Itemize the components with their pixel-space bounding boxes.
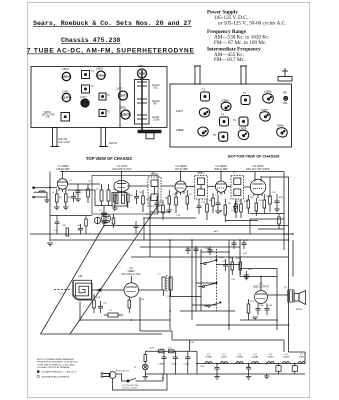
- mounting bracket right: [278, 77, 292, 82]
- svg-text:C34: C34: [200, 366, 205, 368]
- surge resistor R20: [159, 350, 165, 353]
- AC plug body: [109, 372, 116, 379]
- filament V-4: [252, 362, 259, 364]
- svg-text:VOLUME CONTROL AT MINIMUM.: VOLUME CONTROL AT MINIMUM.: [37, 366, 70, 369]
- wire T5 to V5: [244, 186, 251, 188]
- output stage: [240, 276, 277, 278]
- IF can T3 top view: [82, 71, 90, 79]
- chassis leg right: [101, 128, 106, 147]
- IF can T2 top view: [99, 93, 106, 100]
- svg-text:R11: R11: [250, 197, 255, 199]
- svg-text:T2: T2: [233, 119, 237, 122]
- cap drop x78: [77, 184, 79, 191]
- svg-text:C6: C6: [77, 225, 81, 227]
- svg-text:12BA6: 12BA6: [236, 356, 243, 359]
- components under V2: [114, 194, 117, 202]
- ground under V3: [167, 209, 173, 211]
- svg-text:R15: R15: [248, 269, 253, 271]
- cap x157 drop: [156, 196, 158, 203]
- vertical wire x150: [149, 196, 151, 240]
- svg-text:12AT7: 12AT7: [176, 110, 184, 113]
- svg-text:L1: L1: [52, 192, 55, 194]
- svg-text:C12: C12: [201, 202, 206, 204]
- svg-text:T8: T8: [284, 287, 287, 289]
- ground under filament bus: [264, 375, 270, 377]
- B+ rail 1: [283, 172, 285, 251]
- loop panel diagonal left: [41, 226, 105, 335]
- resistor x236 drop: [235, 199, 237, 204]
- svg-text:50B5: 50B5: [138, 66, 144, 68]
- capacitor C27: [98, 306, 103, 308]
- svg-text:FROM POINTS INDICATED TO B- WI: FROM POINTS INDICATED TO B- WITH A: [37, 361, 77, 364]
- svg-text:R4: R4: [130, 195, 134, 197]
- svg-text:SPKR: SPKR: [296, 309, 302, 311]
- filament labels: [205, 354, 305, 359]
- tube V-7 50B5 top view: [138, 69, 147, 78]
- switch contact S1-B: [202, 285, 204, 287]
- bus step y331: [140, 330, 172, 332]
- wire T3 to V3: [161, 185, 175, 187]
- main bus y234: [30, 233, 293, 235]
- svg-text:R7: R7: [189, 194, 193, 196]
- drop x86 resistor: [85, 216, 87, 220]
- tube V-3 12BA6: [175, 181, 186, 192]
- ground output: [252, 316, 258, 318]
- svg-text:Chassis 475.238: Chassis 475.238: [61, 37, 120, 44]
- component value labels: [52, 173, 302, 369]
- AM loop outer boundary: [73, 280, 91, 300]
- svg-text:250: 250: [283, 102, 288, 105]
- svg-text:DET. AVC 1ST AUDIO: DET. AVC 1ST AUDIO: [246, 168, 270, 171]
- cap x218 drop: [217, 196, 219, 203]
- IF can T4 top view: [82, 85, 90, 93]
- svg-text:12AT7: 12AT7: [80, 96, 87, 99]
- link y215 left: [50, 215, 92, 217]
- filament V-5: [267, 362, 274, 364]
- osc coil T7: [162, 277, 165, 290]
- tuner mounting plate: [138, 130, 161, 133]
- horizontal y229 right: [258, 228, 284, 230]
- svg-text:S1-B: S1-B: [219, 257, 224, 259]
- svg-text:T4: T4: [91, 86, 94, 88]
- wire T4 to V4: [207, 186, 215, 188]
- FM osc coil L5: [102, 214, 111, 223]
- cap x277 drop: [276, 194, 278, 201]
- wire V7 to T8: [268, 294, 288, 296]
- capacitors mid: [223, 264, 228, 266]
- svg-text:12BE6: 12BE6: [176, 129, 184, 132]
- band switch S1: [198, 247, 249, 311]
- ground R2: [63, 206, 69, 208]
- resistor R17: [247, 304, 250, 313]
- svg-text:COND: COND: [153, 120, 160, 122]
- svg-text:12AT7: 12AT7: [221, 356, 228, 359]
- svg-text:TOP VIEW OF CHASSIS: TOP VIEW OF CHASSIS: [86, 156, 132, 161]
- filament right end riser: [304, 352, 306, 364]
- ground left bottom: [47, 242, 53, 244]
- resistor x207 drop: [206, 199, 208, 204]
- tube V-1 12AT7 top view: [119, 91, 128, 100]
- plug prongs: [103, 373, 109, 375]
- svg-text:12BA6: 12BA6: [62, 68, 70, 71]
- svg-text:12AT7: 12AT7: [116, 88, 123, 91]
- switch contact S1-A: [204, 262, 206, 264]
- socket T2 bottom view: [239, 117, 248, 126]
- IF transformer T3 dashed can: [148, 177, 161, 206]
- svg-text:FM: FM: [283, 92, 287, 95]
- svg-text:VOL CONT: VOL CONT: [58, 141, 71, 144]
- vertical x229 long: [228, 240, 230, 330]
- svg-text:R16: R16: [96, 297, 101, 299]
- svg-text:T1: T1: [96, 189, 99, 191]
- cap cluster x244 y242: [242, 242, 247, 244]
- bus y257: [131, 256, 289, 258]
- svg-text:AM-FM: AM-FM: [152, 84, 160, 87]
- svg-text:C27: C27: [103, 303, 108, 305]
- filament V-1: [205, 362, 212, 364]
- volume control R9: [224, 205, 227, 215]
- AM loop L7 spiral: [73, 281, 92, 299]
- horizontal y305: [192, 304, 216, 306]
- filament ground bus: [145, 373, 305, 375]
- ground x277: [274, 208, 280, 210]
- svg-text:S1-A: S1-A: [205, 247, 210, 250]
- loop panel diagonal right: [70, 205, 158, 334]
- wire V6 to osc coil: [139, 289, 162, 291]
- socket 12AT7 bottom view: [199, 108, 209, 117]
- resistor x163 drop: [162, 200, 164, 205]
- power cord / plug: [101, 372, 167, 390]
- cap x136 y225: [134, 225, 139, 227]
- cord bottom conductor: [113, 378, 168, 390]
- svg-text:C3: C3: [88, 181, 92, 183]
- label V-6 AM conv: [121, 267, 141, 276]
- horizontal y296: [170, 296, 201, 298]
- filament V-2: [221, 362, 228, 364]
- svg-text:AM-FM: AM-FM: [109, 142, 117, 145]
- svg-text:R5: R5: [146, 199, 150, 201]
- svg-text:12AT7: 12AT7: [119, 94, 127, 98]
- svg-text:FM—10.7 Mc.: FM—10.7 Mc.: [214, 57, 245, 63]
- bus y247: [140, 246, 240, 248]
- svg-text:ON VOL CONT.: ON VOL CONT.: [122, 387, 138, 389]
- switch S2 contact: [127, 380, 129, 382]
- wire bottom output: [248, 317, 250, 320]
- wire V2 to T3: [127, 185, 148, 187]
- riser to B+ bus: [189, 340, 191, 351]
- filter cap C36C: [187, 351, 189, 357]
- ratio detector T-6 top view: [61, 113, 70, 122]
- wire V1 plate: [62, 172, 64, 179]
- svg-text:C23: C23: [231, 279, 236, 281]
- tube V3 pins: [176, 192, 178, 195]
- svg-text:12AT7: 12AT7: [261, 109, 269, 112]
- capacitor C2: [71, 196, 76, 198]
- switch contact S1-C: [208, 305, 210, 307]
- svg-text:12BE6: 12BE6: [122, 113, 130, 117]
- svg-text:C17: C17: [272, 192, 277, 194]
- ground x78: [75, 198, 81, 200]
- vertical x196: [195, 247, 197, 311]
- horizontal link y205: [95, 205, 112, 207]
- svg-text:R18: R18: [140, 299, 145, 301]
- cap cluster x234 y242: [232, 242, 237, 244]
- svg-text:VOLTAGE READINGS — LINE 117 V.: VOLTAGE READINGS — LINE 117 V.: [42, 371, 77, 374]
- extra mid-band wiring: [50, 214, 284, 241]
- svg-text:C36C: C36C: [184, 364, 190, 366]
- svg-text:C1: C1: [69, 180, 73, 182]
- ground x246 y275: [244, 276, 250, 278]
- svg-text:R20: R20: [150, 348, 155, 350]
- svg-text:R13: R13: [279, 197, 284, 199]
- ground x218: [215, 210, 221, 212]
- svg-text:T5: T5: [233, 173, 236, 175]
- svg-text:L10: L10: [168, 348, 172, 350]
- ground filament 2: [246, 376, 252, 378]
- svg-text:C21: C21: [229, 258, 234, 260]
- resistor drop x88: [87, 184, 89, 189]
- filament V-3: [236, 362, 243, 364]
- horizontal link y220: [225, 220, 258, 222]
- horizontal y252: [201, 251, 229, 253]
- svg-text:AVC: AVC: [214, 230, 219, 233]
- resistor x241 drop: [240, 199, 242, 204]
- resistor x279: [278, 214, 280, 218]
- svg-text:T1: T1: [243, 92, 247, 95]
- svg-text:T3: T3: [202, 89, 206, 92]
- drop x57: [56, 216, 58, 223]
- svg-text:R1: R1: [59, 197, 63, 199]
- svg-text:T-6: T-6: [46, 117, 50, 119]
- filter choke L10: [169, 350, 175, 353]
- filament bypass cap 1: [215, 367, 220, 369]
- filter cap C36A: [163, 351, 165, 357]
- vertical x140: [139, 297, 141, 331]
- antenna ground: [44, 199, 50, 201]
- svg-text:FM CONV & OSC: FM CONV & OSC: [112, 168, 131, 171]
- B+ line from rectifier: [145, 350, 197, 352]
- tube V-3 12BA6 top view: [62, 72, 70, 80]
- horizontal link y212: [150, 211, 170, 213]
- tuning gang condenser: [135, 80, 150, 125]
- bottom chassis outline: [170, 84, 292, 147]
- resistor R2: [65, 194, 68, 202]
- socket 12BA6 bottom view: [221, 102, 231, 110]
- svg-text:BOTTOM VIEW OF CHASSIS: BOTTOM VIEW OF CHASSIS: [228, 155, 280, 159]
- legend alignment symbol: [37, 375, 39, 377]
- svg-text:OSC: OSC: [153, 88, 158, 90]
- note text block: [37, 358, 77, 369]
- top chassis outline: [31, 67, 167, 128]
- svg-text:1ST IF AMP: 1ST IF AMP: [175, 168, 188, 171]
- capacitor C30: [256, 308, 261, 310]
- horizontal link y218: [143, 217, 196, 219]
- tube V4 pins: [217, 192, 219, 195]
- legend voltage symbol: [37, 370, 39, 372]
- svg-text:R3: R3: [63, 225, 67, 227]
- filament left end: [196, 364, 198, 375]
- tube V-1 12BA6: [57, 179, 67, 189]
- ground mid: [244, 274, 250, 276]
- ground below pilot: [143, 376, 149, 378]
- svg-text:12BE6: 12BE6: [119, 108, 127, 110]
- svg-text:T5: T5: [107, 112, 110, 114]
- svg-text:FM RF AMP: FM RF AMP: [56, 168, 69, 171]
- svg-text:AM-FM: AM-FM: [152, 100, 160, 103]
- tuner shaft: [141, 70, 143, 131]
- svg-text:50B5: 50B5: [299, 357, 305, 359]
- vertical bus left: [49, 172, 51, 240]
- svg-text:ALIGNMENT ADJUSTMENTS: ALIGNMENT ADJUSTMENTS: [42, 376, 71, 379]
- socket 12AT7 second bottom view: [260, 112, 271, 121]
- cap x196 y249: [194, 248, 199, 250]
- vertical x150b: [149, 240, 151, 257]
- resistor on bus: [66, 228, 69, 236]
- wire loop to V6: [92, 289, 125, 291]
- svg-text:12BA6: 12BA6: [62, 75, 71, 79]
- wire V4 to T5: [227, 186, 231, 188]
- top bus wire: [60, 171, 284, 173]
- tube V2 pins: [117, 191, 119, 194]
- dashed pointer to loop: [54, 289, 71, 291]
- svg-text:12BA6: 12BA6: [96, 68, 104, 71]
- svg-text:VOL: VOL: [231, 210, 236, 212]
- cap x188 y249: [186, 248, 191, 250]
- svg-text:or 105-125 V., 50-60 cycles A.: or 105-125 V., 50-60 cycles A.C.: [218, 21, 286, 27]
- svg-text:12BA6: 12BA6: [221, 100, 229, 103]
- svg-text:12BA6: 12BA6: [97, 73, 106, 77]
- B+ rail 3: [292, 240, 294, 277]
- svg-text:12AT6: 12AT6: [62, 91, 69, 94]
- B+ rail 2: [288, 177, 290, 352]
- svg-text:C13: C13: [215, 195, 220, 197]
- filament V-7: [298, 362, 305, 364]
- socket T4 bottom view: [220, 117, 229, 126]
- filament string: [145, 351, 305, 379]
- filament bypass cap 2: [246, 367, 251, 369]
- horizontal y283: [196, 282, 216, 284]
- svg-text:L7: L7: [60, 292, 63, 296]
- filament V-6: [283, 362, 290, 364]
- resistor x213 drop: [212, 193, 214, 198]
- components under V5: [247, 200, 250, 208]
- vertical x192: [191, 240, 193, 320]
- svg-text:T3: T3: [91, 71, 94, 73]
- output transformer T8: [288, 290, 294, 302]
- filament bus top: [197, 363, 305, 365]
- resistor x270 drop: [269, 190, 271, 196]
- bus y225: [104, 225, 289, 227]
- switch feed caps: [208, 249, 213, 251]
- chassis post right: [241, 66, 246, 84]
- svg-text:RATIO: RATIO: [44, 111, 51, 114]
- svg-text:T2: T2: [107, 95, 110, 97]
- svg-text:C16: C16: [258, 200, 263, 202]
- capacitor C31: [265, 308, 270, 310]
- svg-text:7 TUBE AC-DC, AM-FM, SUPERHETE: 7 TUBE AC-DC, AM-FM, SUPERHETERODYNE: [27, 48, 195, 55]
- right section of top view: tuner: [119, 69, 162, 139]
- svg-text:C14: C14: [176, 215, 181, 217]
- chassis post left: [195, 66, 200, 84]
- vertical rail x277: [276, 277, 278, 331]
- capacitor C8: [134, 196, 139, 198]
- wire bottom junction: [79, 302, 81, 321]
- cap x199 drop: [198, 199, 200, 206]
- svg-text:VTVM. LINE VOLTAGE 117 V. A.C.: VTVM. LINE VOLTAGE 117 V. A.C. AND: [37, 363, 75, 366]
- svg-text:12AT6: 12AT6: [267, 356, 274, 359]
- tuner shaft stub: [146, 133, 154, 139]
- svg-text:C26: C26: [78, 275, 83, 278]
- vertical x201: [200, 249, 202, 311]
- tube V-4 12BA6 top view: [97, 71, 105, 79]
- components under V3: [168, 196, 171, 204]
- svg-text:C36B: C36B: [171, 364, 177, 366]
- electrolytic C36 box: [276, 366, 281, 372]
- tube V-5 12AT6 top view: [62, 93, 70, 101]
- IF transformer T4 dashed can: [195, 175, 208, 199]
- spec block: power supply: [207, 10, 286, 64]
- svg-text:C8: C8: [139, 192, 143, 194]
- cord top conductor: [116, 374, 127, 381]
- svg-text:C30: C30: [259, 305, 264, 307]
- socket 12AT6 bottom view: [238, 130, 249, 139]
- IF can T5 top view: [99, 110, 106, 117]
- svg-text:AM CONV & OSC: AM CONV & OSC: [121, 273, 141, 276]
- FM ant coil L4: [94, 217, 100, 223]
- socket 12BE6 bottom view: [198, 127, 208, 136]
- tube V-2 12AT7: [114, 180, 129, 191]
- FM osc coil box T2: [112, 193, 127, 207]
- svg-text:12AT6: 12AT6: [63, 96, 71, 100]
- svg-text:C11: C11: [145, 214, 150, 216]
- loop antenna parallelogram: [41, 205, 163, 334]
- pilot lamp: [143, 364, 149, 370]
- svg-text:R10: R10: [244, 201, 249, 203]
- svg-text:2ND IF AMP: 2ND IF AMP: [214, 168, 228, 171]
- svg-text:12BA6: 12BA6: [264, 91, 272, 94]
- link y219 right: [250, 218, 284, 220]
- svg-text:R9: R9: [228, 203, 232, 205]
- svg-text:R17: R17: [250, 301, 255, 303]
- socket T5 bottom view: [219, 132, 228, 141]
- FM ant coil T1: [100, 190, 103, 201]
- socket 12BA6 second bottom view: [263, 94, 274, 103]
- resistor under V6: [128, 300, 131, 308]
- tube V-5 12AT6: [250, 179, 266, 195]
- svg-text:12BE6: 12BE6: [283, 357, 290, 359]
- IF transformer T5 dashed can: [231, 175, 244, 199]
- svg-text:ANT: ANT: [153, 103, 158, 106]
- resistor R19: [144, 355, 147, 362]
- resistor R1: [56, 194, 59, 202]
- svg-text:C20: C20: [222, 261, 227, 263]
- horizontal y264: [216, 264, 240, 266]
- tube V-2 12AT7 top view: [81, 99, 89, 107]
- tube V-6 12BE6 top view: [121, 110, 130, 119]
- tube V-4 12BA6: [215, 181, 226, 192]
- tube V-7 50B5: [255, 291, 268, 304]
- wire antenna to V1: [50, 187, 57, 189]
- svg-text:AC-DC PLUG: AC-DC PLUG: [116, 370, 130, 373]
- antenna junction vertical: [46, 192, 48, 200]
- speaker: [294, 294, 299, 302]
- FM adjustment small: [284, 96, 288, 100]
- resistor x143 drop: [142, 190, 144, 196]
- pilot branch vertical: [144, 351, 146, 354]
- link y205 V1: [68, 189, 95, 191]
- vertical x240: [239, 240, 241, 269]
- svg-text:C33: C33: [190, 342, 195, 344]
